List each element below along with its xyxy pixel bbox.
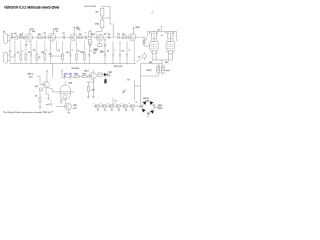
- transistor Q2: [48, 28, 59, 41]
- wire drop x40 lower: [35, 91, 41, 110]
- svg-text:b2: b2: [33, 49, 36, 51]
- capacitor C3: [63, 35, 64, 39]
- svg-text:600R: 600R: [146, 70, 151, 72]
- capacitor C12: [66, 41, 72, 64]
- svg-text:TBD in: TBD in: [27, 74, 34, 76]
- capacitor C2: [44, 35, 45, 39]
- svg-text:007: 007: [69, 73, 73, 75]
- resistor R27: [87, 86, 95, 96]
- svg-text:4k7: 4k7: [93, 53, 97, 55]
- svg-text:230V: 230V: [158, 105, 163, 107]
- input jack J2: [4, 52, 10, 63]
- svg-text:6X4: 6X4: [68, 82, 73, 84]
- capacitor C10f: [14, 41, 16, 64]
- wire from J2: [10, 56, 14, 58]
- svg-text:1M: 1M: [95, 12, 98, 14]
- capacitor C26: [128, 103, 134, 112]
- svg-text:4k7: 4k7: [35, 86, 39, 88]
- svg-text:1k: 1k: [56, 31, 59, 33]
- wire bridge left: [135, 102, 141, 108]
- capacitor C10: [28, 41, 32, 64]
- resistor R16: [75, 41, 77, 64]
- wire heater row: [62, 77, 90, 78]
- svg-text:e1: e1: [104, 40, 107, 42]
- resistor R17: [80, 41, 86, 64]
- tube pin labels: [146, 32, 178, 41]
- svg-text:+: +: [93, 103, 95, 105]
- svg-text:+: +: [100, 103, 102, 105]
- diode D4: [122, 89, 126, 94]
- capacitor C15b: [126, 41, 128, 64]
- ground bus rail: [10, 63, 136, 65]
- svg-text:HT: HT: [127, 80, 131, 82]
- grid stopper pot: [138, 52, 147, 60]
- input jack J1: [3, 32, 10, 44]
- resistor R3: [38, 34, 43, 38]
- svg-text:6k8: 6k8: [165, 62, 169, 64]
- svg-text:C2: C2: [43, 33, 47, 35]
- capacitor C14b: [112, 41, 114, 64]
- resistor R25: [82, 73, 87, 77]
- svg-text:d1: d1: [58, 50, 61, 52]
- svg-text:KBPC1: KBPC1: [143, 98, 151, 100]
- capacitor C4: [108, 35, 109, 39]
- capacitor C24: [121, 103, 127, 112]
- caption: [3, 111, 54, 114]
- svg-text:2k2: 2k2: [41, 52, 45, 54]
- resistor R4: [78, 36, 82, 38]
- svg-text:PsuCdrv10M: PsuCdrv10M: [84, 5, 96, 8]
- svg-text:The Reverb Driver transformer: The Reverb Driver transformer set aside …: [3, 111, 54, 114]
- tube V2: [160, 31, 175, 54]
- svg-text:47u: 47u: [28, 52, 32, 54]
- pot P1: [14, 33, 19, 40]
- svg-text:6k8: 6k8: [149, 62, 153, 64]
- q4 area labels: [94, 49, 105, 54]
- label fence: [93, 50, 102, 55]
- resistor R13: [41, 41, 46, 64]
- capacitor C20: [93, 103, 99, 112]
- ground sym q9: [87, 97, 90, 99]
- resistor R11: [25, 41, 27, 64]
- trimmer VR1: [84, 35, 87, 39]
- diode D2: [69, 73, 73, 79]
- resistor R5: [89, 30, 96, 48]
- wire right drop: [127, 80, 141, 101]
- label P ref: [84, 5, 96, 8]
- svg-text:C5: C5: [117, 33, 121, 35]
- psu label under rail: [114, 66, 124, 68]
- svg-text:x: x: [50, 100, 52, 102]
- svg-text:e: e: [72, 49, 74, 51]
- capacitor C22: [107, 103, 113, 112]
- svg-text:b: b: [22, 33, 24, 35]
- svg-text:k: k: [156, 32, 158, 34]
- svg-text:1k: 1k: [38, 57, 41, 59]
- resistor R10: [17, 41, 22, 64]
- tube B+ loop rail: [147, 26, 176, 38]
- svg-text:c9: c9: [25, 44, 28, 46]
- svg-text:7812: 7812: [84, 70, 89, 72]
- svg-text:1: 1: [146, 39, 148, 41]
- transistor Q9: [84, 70, 112, 82]
- wire vertical x111.5: [113, 98, 118, 106]
- wire drop x10: [9, 37, 11, 63]
- faint logo top right: [151, 7, 155, 14]
- svg-text:VERSION 0.0.2 whirlcode reve: VERSION 0.0.2 whirlcode reverb driver: [4, 6, 60, 10]
- capacitor C25: [46, 98, 62, 106]
- wire to tube grid: [143, 37, 150, 46]
- capacitor C14: [104, 41, 106, 64]
- ground sym q9b: [92, 80, 95, 99]
- resistor R1: [19, 34, 24, 38]
- wire tube cathodes: [149, 54, 172, 64]
- svg-text:tank: tank: [166, 69, 171, 72]
- capacitor C21: [100, 103, 106, 112]
- svg-text:1N4: 1N4: [64, 73, 69, 75]
- signal wire main: [10, 36, 147, 38]
- wire drop x52: [51, 64, 53, 78]
- svg-text:m: m: [129, 50, 131, 52]
- svg-text:a: a: [22, 50, 24, 52]
- svg-text:1k: 1k: [138, 57, 141, 59]
- capacitor C1: [11, 35, 12, 39]
- resistor R23: [35, 86, 43, 91]
- wire output line: [141, 60, 163, 104]
- top-middle divider: resistor R31: [95, 20, 104, 28]
- svg-text:2: 2: [176, 39, 178, 41]
- title text: [4, 6, 60, 10]
- svg-text:+: +: [121, 103, 123, 105]
- resistor R15: [62, 41, 64, 64]
- svg-text:50Hz: 50Hz: [158, 108, 163, 110]
- svg-text:TBD: TBD: [76, 29, 81, 31]
- diode D1: [61, 70, 68, 80]
- capacitor C23: [114, 103, 120, 112]
- svg-text:ac: ac: [135, 102, 137, 104]
- wire q9 base bias: [87, 82, 94, 86]
- svg-text:+: +: [107, 103, 109, 105]
- resistor R14: [49, 41, 63, 57]
- transistor Q1: [25, 29, 36, 47]
- svg-text:j: j: [114, 50, 116, 52]
- wire bridge right: [155, 105, 163, 110]
- capacitor C20 row wire: [93, 105, 136, 107]
- svg-text:TBD: TBD: [82, 73, 87, 75]
- resistor R24: [74, 73, 79, 77]
- svg-text:C4: C4: [108, 33, 112, 35]
- svg-text:V+: V+: [115, 100, 118, 102]
- svg-text:C3: C3: [62, 33, 66, 35]
- capacitor C11: [50, 41, 52, 64]
- svg-text:z5: z5: [108, 75, 111, 77]
- svg-text:c: c: [46, 50, 47, 52]
- transistor Q10 regulator: [56, 103, 78, 114]
- svg-text:q4: q4: [104, 33, 107, 35]
- svg-text:100n: 100n: [100, 52, 105, 54]
- svg-text:TBD: TBD: [74, 73, 79, 75]
- fence labels extra: [22, 49, 131, 52]
- svg-text:1k: 1k: [35, 95, 38, 97]
- svg-text:2k: 2k: [104, 45, 107, 47]
- transistor Q3: [70, 27, 81, 41]
- svg-text:+: +: [128, 103, 130, 105]
- rectifier tube V3: [56, 81, 74, 104]
- band labels extra: [10, 31, 145, 40]
- svg-text:h1: h1: [107, 51, 110, 53]
- capacitor C5: [118, 35, 119, 39]
- svg-text:TBD: TBD: [108, 72, 113, 74]
- output transformer T1: [141, 64, 171, 76]
- wire top divider loop: [96, 6, 114, 37]
- svg-text:TBD: TBD: [80, 52, 85, 54]
- wire diag to rail: [136, 58, 143, 63]
- svg-text:1k: 1k: [17, 52, 20, 54]
- transistor Q8: [40, 70, 56, 102]
- svg-text:k2: k2: [122, 51, 125, 53]
- svg-text:470u 25V: 470u 25V: [114, 66, 124, 68]
- svg-text:2k2: 2k2: [32, 31, 36, 33]
- heater label: [71, 68, 79, 70]
- svg-text:k: k: [173, 32, 175, 34]
- svg-text:+B: +B: [157, 29, 160, 31]
- resistor R7: [122, 34, 127, 38]
- svg-text:12V: 12V: [73, 108, 77, 110]
- svg-text:TBD: TBD: [135, 27, 140, 29]
- wire drop x134: [134, 41, 135, 64]
- svg-text:50-60Hz: 50-60Hz: [71, 68, 79, 70]
- svg-text:tr: tr: [85, 31, 87, 34]
- svg-text:470k: 470k: [95, 24, 100, 26]
- top-middle divider: resistor R30: [95, 9, 104, 16]
- svg-text:+: +: [114, 103, 116, 105]
- resistor R26: [98, 73, 103, 76]
- label block left: [27, 74, 40, 85]
- svg-text:gnd: gnd: [29, 76, 33, 78]
- capacitor C13: [88, 41, 90, 64]
- svg-text:10u: 10u: [66, 52, 70, 54]
- bridge rectifier BR1: [141, 98, 156, 116]
- svg-text:out 12: out 12: [46, 103, 53, 106]
- svg-text:+x: +x: [160, 35, 163, 37]
- transistor Q5: [128, 27, 140, 41]
- transistor Q4: [96, 34, 107, 47]
- tube V1: [150, 31, 159, 54]
- resistor R12: [36, 41, 42, 64]
- diode D3: [98, 73, 107, 83]
- capacitor C15: [119, 41, 121, 64]
